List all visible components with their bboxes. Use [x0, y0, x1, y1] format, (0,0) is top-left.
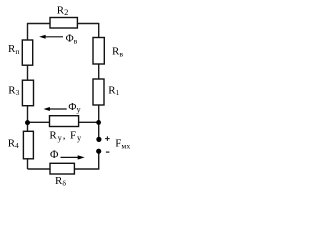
wire left vertical: top rail to Rp	[27, 23, 29, 40]
svg-text:Φ: Φ	[50, 149, 59, 161]
wire left vertical: R3 to node D to R4	[27, 106, 29, 132]
flux arrow Phi (bottom, pointing right)	[61, 155, 85, 159]
wire bottom rail left segment	[28, 168, 51, 170]
label minus sign	[106, 151, 110, 153]
wire right vertical: node C to bottom rail	[98, 151, 100, 169]
node B terminal dot (+ of Fmx)	[96, 137, 101, 142]
wire top rail left segment	[28, 23, 51, 25]
flux arrow Phi_y (middle, pointing left)	[44, 107, 67, 111]
node A junction dot (right, middle branch)	[96, 120, 101, 125]
resistor R1 (right column lower box)	[93, 79, 104, 105]
wire middle branch right: Ry box to node A	[79, 121, 99, 123]
node C terminal dot (- of Fmx)	[96, 149, 101, 154]
resistor Rv (right column top box)	[93, 38, 104, 65]
node D junction dot (left, middle branch)	[25, 120, 30, 125]
wire left vertical: Rp to R3	[27, 65, 29, 80]
resistor R2 (top horizontal box)	[50, 18, 77, 29]
resistor Ry,Fy (middle horizontal box)	[50, 116, 79, 127]
resistor Rdelta (bottom horizontal box)	[50, 163, 74, 174]
resistor R3 (left column middle box)	[22, 80, 33, 106]
resistor R4 (left column bottom box)	[23, 131, 33, 159]
svg-text:R2: R2	[57, 4, 69, 17]
label plus sign	[105, 136, 110, 141]
resistor Rp (left column top box)	[22, 40, 32, 65]
wire right vertical: Rv to R1	[98, 64, 100, 79]
wire left vertical: R4 to bottom rail	[27, 159, 29, 169]
wire top rail right segment	[77, 23, 98, 25]
wire right vertical: R1 through node A to node B	[98, 105, 100, 139]
wire right vertical: top rail to Rv	[98, 23, 100, 38]
flux arrow Phi_v (top, pointing left)	[39, 35, 63, 39]
wire bottom rail right segment	[74, 168, 99, 170]
wire middle branch left: node D to Ry box	[28, 121, 50, 123]
